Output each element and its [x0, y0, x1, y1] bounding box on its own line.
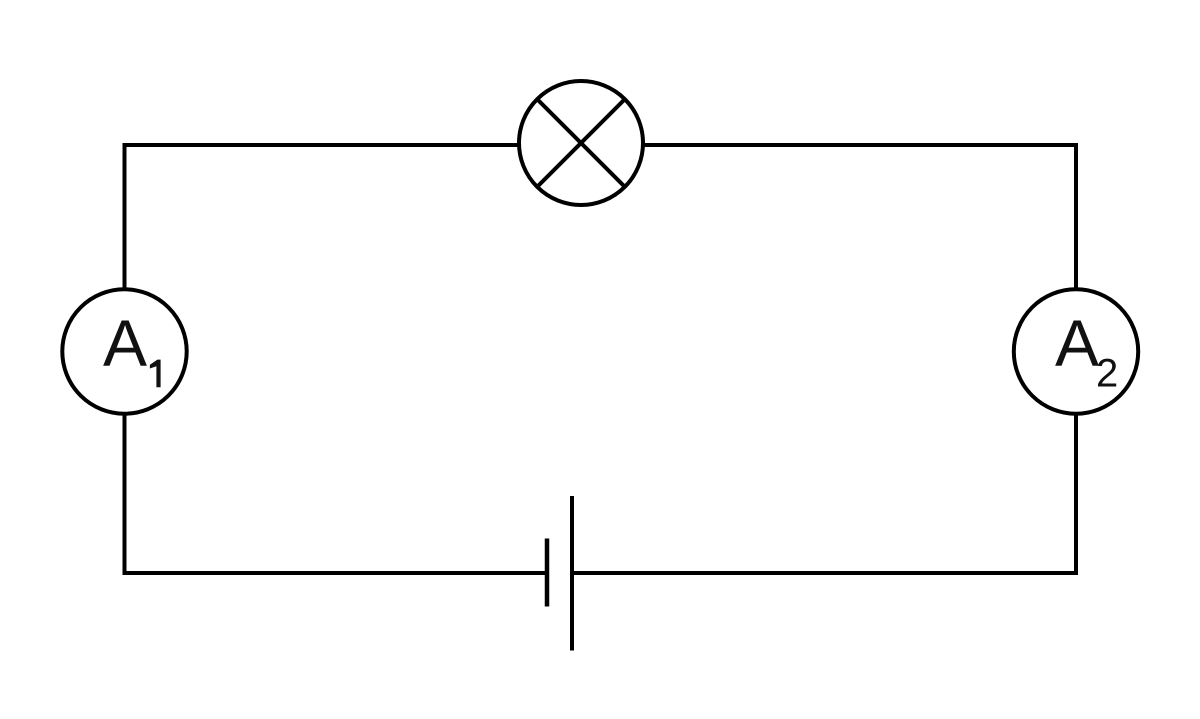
lamp L1 cross diagonal (top-right to bottom-left) — [537, 99, 625, 187]
label subscript "1" of A1 — [150, 360, 161, 388]
lamp L1 (circle with cross) — [519, 81, 643, 205]
ammeter A1 body circle — [62, 289, 186, 413]
wire: bottom-left from bottom corner to battery short plate — [125, 571, 548, 575]
lamp L1 cross diagonal (top-left to bottom-right) — [537, 99, 625, 187]
wire: left side from ammeter A1 down to bottom corner — [123, 412, 127, 575]
wire: top-left from lamp to left corner — [125, 143, 520, 147]
battery B1: long (positive) plate — [570, 496, 574, 651]
wire: right side from ammeter A2 down to bottom corner — [1074, 412, 1078, 575]
svg-text:2: 2 — [1096, 352, 1118, 396]
svg-text:A: A — [103, 306, 147, 380]
ammeter A1 — [62, 289, 186, 413]
wire: left side from top corner down to ammeter A1 — [123, 143, 127, 290]
wire: right side from top corner down to ammeter A2 — [1074, 143, 1078, 290]
ammeter A2 body circle — [1014, 289, 1138, 413]
lamp L1 body circle — [519, 81, 643, 205]
wire: top-right from lamp to right corner — [643, 143, 1076, 147]
svg-text:A: A — [1055, 306, 1099, 380]
battery B1: short (negative) plate — [545, 539, 550, 607]
wire: bottom-right from battery long plate to bottom corner — [572, 571, 1076, 575]
ammeter A2 — [1014, 289, 1138, 413]
